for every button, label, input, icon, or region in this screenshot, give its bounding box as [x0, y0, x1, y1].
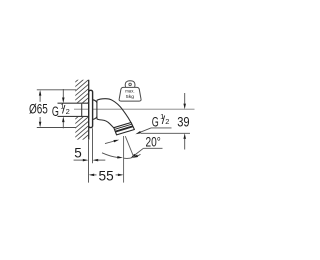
bottom profile: neck, collar step, tube, inner bend — [93, 117, 114, 128]
arrow pointing at outlet face — [105, 141, 115, 144]
svg-text:39: 39 — [177, 114, 189, 129]
aerator — [114, 123, 135, 135]
collar vertical — [96, 102, 98, 117]
svg-text:2: 2 — [66, 107, 70, 116]
39 dimension — [141, 132, 190, 134]
svg-text:G: G — [52, 104, 59, 119]
O65 extension lines — [37, 89, 76, 91]
svg-text:5: 5 — [74, 145, 82, 160]
svg-text:20°: 20° — [146, 135, 161, 150]
top profile: neck, collar step, tube, outer bend — [93, 99, 131, 123]
svg-text:G: G — [152, 114, 159, 129]
svg-text:Ø65: Ø65 — [29, 102, 48, 117]
stream line 20deg — [125, 136, 134, 157]
svg-text:2: 2 — [165, 117, 169, 126]
extension verticals for 5 and 55 — [88, 140, 90, 183]
max 5kg icon — [119, 81, 141, 101]
spout body outline — [93, 99, 131, 128]
svg-text:55: 55 — [99, 169, 114, 184]
svg-text:5kg: 5kg — [126, 94, 135, 99]
wall hatching lower — [66, 103, 94, 154]
wall hatching upper — [66, 66, 94, 122]
vertical reference line — [123, 136, 125, 183]
centerline — [74, 108, 195, 110]
wall face line — [88, 80, 90, 140]
G1/2 left arrows — [62, 89, 64, 128]
O65 dimension line + arrows — [39, 92, 41, 126]
angle arc + arrows — [102, 153, 118, 158]
flange disc — [89, 90, 93, 127]
svg-text:max.: max. — [125, 89, 134, 94]
pipe shank G1/2 — [58, 103, 89, 116]
